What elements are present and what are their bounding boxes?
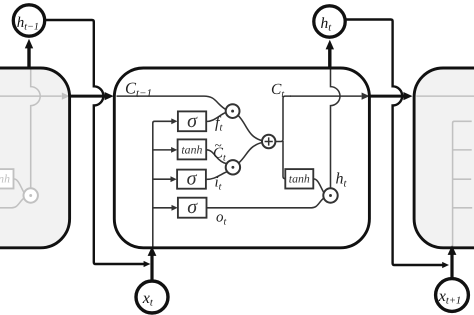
wire h(t-1) to gates (down with hop over C, then right into x(t) line) [45,20,145,264]
arrowhead into o gate box [172,205,178,211]
wire C(t-1) from previous cell into main cell [69,95,106,98]
node x(t+1) circle [436,279,469,312]
arrowhead into i gate box [171,176,177,182]
LSTM cell t+1 (faded, right) [414,68,474,248]
node h(t-1) circle [13,5,44,36]
arrow x(t) into main cell [150,254,153,280]
arrow x(t+1) into next cell [450,253,453,278]
arrow from prev cell top into h(t-1) [27,48,30,67]
node x(t) circle [136,281,168,313]
node h(t) circle [314,6,345,37]
arrowhead C(t-1) entry [105,92,114,100]
labels (main cell only) [125,79,348,228]
arrow from main cell top into h(t) [328,49,331,67]
wire h(t) feedback to next x (down with hop, right into x(t+1) line) [345,20,443,266]
svg-text:~: ~ [215,138,222,153]
wire C(t) from main cell into next cell [369,95,404,98]
heavy inter-cell lines [69,95,404,98]
arrowhead into candidate tanh box [171,147,177,153]
arrowhead into f gate box [171,118,177,124]
LSTM cell t-1 (faded, left) [0,68,70,248]
arrowhead C(t) entry to next cell [403,92,412,100]
LSTM cell t (main) [114,68,369,248]
